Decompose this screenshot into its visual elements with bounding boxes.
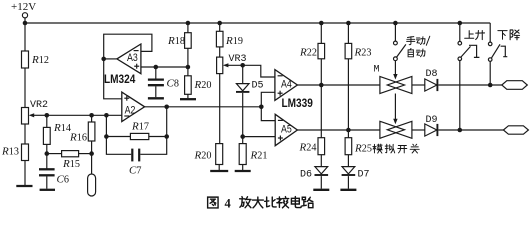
wire: A3 feedback loop to inverting input — [104, 34, 152, 59]
switch: manual/auto toggle — [394, 23, 406, 61]
resistor R17 — [130, 133, 148, 139]
node: VR3 wiper / D5 junction — [240, 63, 245, 68]
connector: output terminal (upper) — [502, 81, 528, 90]
node: A2 feedback tap junction — [104, 113, 109, 118]
wire: descend button down to D8 line — [489, 62, 491, 85]
svg-text:R19: R19 — [225, 35, 243, 47]
node: rail junction at manual/auto switch — [393, 21, 398, 26]
node: R18/R20 divider junction — [186, 65, 191, 70]
ground (below D7) — [340, 189, 356, 191]
svg-text:4: 4 — [225, 197, 232, 211]
ground (below upper R20) — [180, 98, 196, 100]
svg-text:D5: D5 — [252, 81, 264, 92]
wire: rise button down to D9 line (crosses D8 line) — [459, 61, 461, 130]
svg-text:A4: A4 — [281, 79, 292, 91]
diode D7 — [342, 155, 356, 189]
svg-text:D6: D6 — [300, 170, 312, 181]
svg-text:R17: R17 — [131, 121, 149, 133]
ground (below D6) — [313, 189, 329, 191]
node: rail junction at R19 — [217, 21, 222, 26]
capacitor C8 — [148, 67, 164, 97]
+12V supply terminal — [22, 13, 27, 23]
wire: VR2 wiper line to A2 inverting input — [47, 114, 122, 116]
wire: R14 top lead — [46, 115, 48, 127]
svg-text:R16: R16 — [69, 132, 87, 144]
wire: node to R15 — [47, 153, 62, 155]
node: rail junction at R18 — [186, 21, 191, 26]
wire: A4 node down to R24 — [320, 85, 322, 138]
resistor R19 — [216, 31, 223, 47]
wire: feedback node up to A2 output bus — [166, 107, 168, 137]
resistor R13 — [22, 144, 29, 161]
resistor R15 — [62, 151, 79, 157]
resistor R14 — [43, 127, 50, 144]
node: R17/C7 left junction — [104, 134, 109, 139]
comparator A5 — [275, 114, 297, 145]
svg-text:VR3: VR3 — [229, 54, 247, 65]
potentiometer VR2 — [22, 108, 47, 125]
analog switch (lower transmission gate) — [380, 121, 412, 138]
resistor R20 (lower) — [216, 144, 223, 165]
resistor R20 (upper) — [185, 76, 192, 95]
ground (below lower R20) — [210, 170, 228, 172]
svg-text:D8: D8 — [426, 69, 438, 80]
sensor (microphone capsule) — [88, 174, 96, 196]
svg-text:R14: R14 — [53, 122, 71, 134]
wire: rail to R18 — [187, 23, 189, 33]
svg-text:A5: A5 — [281, 124, 292, 136]
wire: R16 top lead — [91, 115, 93, 122]
ground (below R21) — [235, 170, 251, 172]
resistor R16 — [88, 122, 95, 141]
wire: D9 cathode line to connector — [438, 129, 503, 131]
svg-text:R22: R22 — [299, 47, 317, 59]
wire: D5 cathode down to R21 (crosses A2 bus) — [242, 93, 244, 144]
wire: R12 to VR2 — [24, 68, 26, 108]
wire: A3 non-inverting input line — [141, 66, 188, 68]
svg-text:LM324: LM324 — [104, 73, 135, 86]
wire: R16 bottom lead — [91, 141, 93, 154]
pushbutton: rise — [458, 23, 479, 61]
wire: switch control arrow into analog switch M — [393, 61, 397, 80]
svg-text:VR2: VR2 — [30, 100, 48, 111]
wire: A4 output line to analog switch — [297, 84, 380, 86]
wire: A2 inverting tap down to R17/C7 — [105, 115, 107, 136]
wire: control arrow into lower analog switch — [393, 94, 397, 125]
comparator A4 — [275, 70, 298, 101]
ground (below C8) — [148, 97, 164, 99]
diode D8 — [425, 79, 438, 91]
wire: left column from rail to R12 — [24, 23, 26, 51]
node: +12V rail junction — [23, 21, 28, 26]
resistor R21 — [239, 144, 246, 165]
node: R21 / A5 non-inverting junction — [240, 134, 245, 139]
wire: node to R17 — [106, 136, 130, 138]
wire: R13 down to ground — [24, 161, 26, 186]
svg-text:R23: R23 — [354, 47, 372, 59]
svg-text:R25: R25 — [354, 143, 372, 155]
node: R14/R15/C6 junction — [45, 151, 50, 156]
svg-text:R21: R21 — [250, 150, 268, 162]
node: A3 output junction — [101, 57, 106, 62]
wire: R23 down to A5 output node (crosses A4 line) — [347, 59, 349, 130]
resistor R18 — [185, 33, 192, 49]
svg-text:R20: R20 — [194, 150, 212, 162]
svg-text:+12V: +12V — [11, 1, 36, 13]
op-amp A2 — [122, 92, 145, 121]
analog switch M (upper transmission gate) — [380, 77, 412, 94]
label: manual/auto (shou dong / zi dong) — [407, 36, 430, 57]
connector: output terminal (lower) — [503, 126, 528, 134]
wire: R17 to right feedback node — [149, 136, 167, 138]
wire: bus down to A5 inverting input — [261, 107, 275, 121]
wire: R18 to R20 — [187, 48, 189, 76]
op-amp A3 (unity buffer, output to the left) — [117, 44, 141, 74]
wire: rail to R19 — [219, 23, 221, 31]
wire: rail to R22 — [320, 23, 322, 43]
wire: VR2 to R13 — [24, 124, 26, 144]
resistor R12 — [22, 51, 29, 68]
node: rise-button junction on D9 line — [458, 128, 463, 133]
wire: rail to R23 — [347, 23, 349, 43]
resistor R23 — [345, 43, 352, 58]
resistor R25 — [345, 138, 352, 155]
ground (below C6) — [40, 189, 55, 191]
svg-text:M: M — [374, 65, 380, 76]
wire: R21 to ground — [242, 165, 244, 171]
label: analog switch (mo ni kai guan) — [373, 144, 419, 153]
svg-text:C8: C8 — [167, 78, 179, 90]
svg-text:R20: R20 — [194, 79, 212, 91]
svg-text:LM339: LM339 — [282, 98, 313, 111]
ground (below R13) — [16, 185, 32, 187]
svg-text:A3: A3 — [127, 52, 138, 64]
wire: R14 bottom lead — [46, 144, 48, 153]
diode D5 — [236, 65, 249, 92]
wire: A2 output bus — [145, 106, 262, 108]
pushbutton: descend — [488, 23, 507, 61]
node: rail junction at R22 — [319, 21, 324, 26]
svg-text:R24: R24 — [299, 142, 317, 154]
wire: R15 to R16 bottom node — [79, 153, 92, 155]
potentiometer VR3 — [217, 57, 243, 74]
wire: lower R20 to ground — [218, 165, 220, 171]
diode D6 — [315, 155, 329, 189]
wire: D8 cathode line to up/down contacts and connector — [438, 84, 502, 86]
wire: top +12V rail — [25, 22, 490, 24]
caption: Fig.4 amplification comparison circuit — [208, 197, 313, 211]
wire: upper gate to D8 — [412, 84, 425, 86]
wire: R19 to VR3 — [219, 47, 221, 57]
svg-text:R13: R13 — [1, 146, 19, 158]
resistor R22 — [318, 43, 325, 58]
wire: VR3 bottom down to lower R20 (crosses A2 bus) — [219, 74, 221, 144]
wire: A3 output down to A2 non-inverting input — [104, 59, 122, 99]
svg-text:C6: C6 — [57, 174, 69, 186]
resistor R24 — [318, 138, 325, 155]
node: rail junction at R23 — [346, 21, 351, 26]
label: descend (xia jiang) — [498, 30, 520, 40]
wire: bus up to A4 non-inverting input — [261, 92, 275, 107]
node: descend-button junction on D8 line — [488, 83, 493, 88]
node: A5 output / R23 / R25 junction — [346, 128, 351, 133]
wire: A5 output line to analog switch — [297, 129, 380, 131]
capacitor C7 feedback loop — [106, 137, 166, 162]
wire: A3 output to left node — [104, 58, 117, 60]
node: rail junction at rise button — [458, 21, 463, 26]
node: R16 top junction — [89, 113, 94, 118]
diode D9 — [425, 124, 438, 136]
svg-text:R15: R15 — [62, 158, 80, 170]
svg-text:D9: D9 — [426, 115, 438, 126]
node: R17/C7 right junction — [164, 134, 169, 139]
wire: down to sensor — [91, 154, 93, 174]
svg-text:R18: R18 — [167, 35, 185, 47]
svg-text:A2: A2 — [125, 105, 136, 117]
wire: lower gate to D9 — [412, 129, 425, 131]
node: R16/R15 junction — [89, 151, 94, 156]
wire: A5 node down to R25 — [347, 130, 349, 138]
svg-text:R12: R12 — [31, 54, 49, 66]
node: A2 output bus tap — [164, 105, 169, 110]
node: bus end junction to comparators — [259, 105, 264, 110]
capacitor C6 — [39, 154, 55, 189]
node: VR2 wiper junction — [45, 113, 50, 118]
node: A4 output / R22 junction — [319, 83, 324, 88]
wire: wiper line to A4 inverting input — [243, 65, 275, 77]
svg-text:D7: D7 — [358, 170, 370, 181]
node: C8 tap junction — [154, 65, 159, 70]
wire: R20 to ground — [187, 94, 189, 98]
wire: node to A5 non-inverting input — [243, 136, 276, 138]
label: rise (shang sheng) — [465, 31, 485, 40]
wire: R22 to A4 output node — [320, 59, 322, 85]
svg-text:C7: C7 — [129, 165, 141, 177]
